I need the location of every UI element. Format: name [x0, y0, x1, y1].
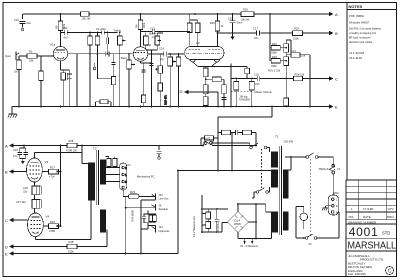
resistor R12b above bus: [100, 100, 108, 104]
svg-text:J10: J10: [159, 193, 164, 197]
wire master vol row: [231, 78, 294, 80]
node dots gnd bus: [18, 106, 20, 108]
svg-text:DRN.: DRN.: [387, 215, 394, 219]
transformer T1 sec2: [283, 212, 288, 230]
svg-text:V3 - 4 filaments: V3 - 4 filaments: [240, 244, 259, 248]
pot RVx: [158, 66, 163, 74]
node E2 test point: [93, 67, 96, 70]
svg-text:Input: Input: [5, 54, 11, 58]
resistor R13: [142, 95, 146, 103]
svg-text:R25: R25: [210, 21, 215, 25]
svg-text:Bass: Bass: [121, 56, 127, 60]
wire V4 anode: [35, 201, 91, 240]
junction dots top: [18, 13, 311, 107]
node dots rail: [60, 13, 62, 15]
svg-text:T1A F2: T1A F2: [202, 137, 211, 141]
svg-text:W005: W005: [234, 222, 241, 226]
selector lower contacts: [256, 191, 259, 194]
wire NFB vertical: [177, 171, 179, 254]
wire rail to R8 to anode: [61, 14, 65, 47]
svg-text:50u+: 50u+: [237, 20, 243, 24]
wire coupling: [148, 53, 184, 55]
resistor R2: [17, 60, 22, 70]
capacitor C20b: [222, 98, 227, 100]
tube V1b: [133, 47, 147, 61]
svg-text:PCB: JMB6A: PCB: JMB6A: [349, 14, 364, 18]
svg-text:15k 1W: 15k 1W: [82, 16, 91, 20]
svg-text:C: C: [5, 218, 8, 223]
svg-text:Line Out: Line Out: [159, 197, 169, 201]
svg-text:+healthy at clipping into: +healthy at clipping into: [349, 31, 377, 35]
pot RV bass: [127, 60, 132, 69]
svg-text:R33: R33: [50, 220, 55, 224]
svg-text:C17: C17: [253, 27, 258, 31]
svg-text:R22: R22: [272, 42, 277, 46]
svg-text:E: E: [336, 204, 338, 208]
svg-text:220k: 220k: [293, 37, 299, 41]
svg-text:Fax: 408-090: Fax: 408-090: [348, 272, 366, 276]
svg-text:470R 2W: 470R 2W: [66, 149, 77, 153]
svg-text:R18: R18: [294, 27, 299, 31]
voltage selector switch: [250, 146, 253, 149]
fuse F1: [332, 164, 335, 167]
wire R3 to gnd: [40, 81, 42, 107]
wire R2 to gnd: [18, 70, 20, 107]
resistor R15: [176, 57, 181, 66]
wire V3 anode top: [34, 153, 82, 159]
svg-text:R40 680R: R40 680R: [131, 210, 135, 222]
resistor R8: [58, 21, 63, 31]
svg-text:V1b: V1b: [147, 43, 152, 47]
pot RV volume: [168, 57, 173, 66]
svg-text:4n7: 4n7: [64, 36, 69, 40]
svg-text:100k: 100k: [68, 249, 74, 253]
resistor R3: [39, 71, 44, 81]
svg-text:22n: 22n: [254, 36, 259, 40]
svg-text:33k: 33k: [29, 59, 34, 63]
connector P1: [120, 163, 127, 190]
svg-text:RV3: RV3: [130, 190, 136, 194]
svg-text:V2: V2: [196, 41, 200, 45]
wire arrow A right: [329, 12, 334, 16]
bridge rectifier D1-4: [228, 212, 249, 233]
svg-text:R4: R4: [293, 49, 297, 53]
resistor R27: [49, 169, 59, 174]
capacitor C5: [106, 38, 108, 45]
resistor R20: [195, 23, 200, 33]
transformer T2 primary: [89, 163, 95, 200]
capacitor C14: [164, 52, 167, 57]
ground mains: [322, 206, 331, 211]
svg-text:CPV: CPV: [388, 207, 394, 211]
svg-text:S1: S1: [309, 242, 313, 246]
wire T1 to switch: [285, 157, 306, 170]
notes box: [347, 3, 397, 181]
capacitor C28: [24, 148, 29, 159]
svg-text:47u: 47u: [13, 154, 18, 158]
svg-text:A: A: [335, 12, 338, 17]
pot RV treble: [118, 36, 123, 45]
transformer T1 prim3: [272, 212, 278, 232]
resistor R18: [293, 31, 303, 36]
svg-text:T500mA: T500mA: [319, 167, 329, 171]
capacitor C27: [34, 200, 41, 209]
wire rail to plates: [190, 14, 198, 47]
svg-text:MS1: MS1: [334, 191, 340, 195]
resistor R21: [212, 77, 221, 82]
capacitor C17: [257, 31, 260, 36]
resistor R25: [215, 21, 219, 31]
pot RV1 master: [234, 81, 239, 90]
svg-text:17-5-80: 17-5-80: [363, 207, 374, 211]
svg-text:4001: 4001: [349, 225, 379, 239]
capacitor C6: [105, 51, 109, 56]
svg-text:T2: T2: [93, 147, 97, 151]
svg-text:Middle: Middle: [149, 32, 157, 36]
small labels top half: [5, 8, 338, 110]
node test point: [21, 28, 24, 31]
svg-text:C18: C18: [254, 72, 259, 76]
resistor R34: [222, 85, 227, 94]
wire HT rail drop to C10: [22, 14, 24, 19]
jack J1 input: [16, 52, 19, 61]
node dots mid: [89, 32, 91, 34]
wire rail-R9-anode: [141, 14, 153, 47]
capacitor C31: [214, 213, 219, 228]
svg-text:distortion just visible.: distortion just visible.: [349, 40, 373, 44]
wire from rail: [270, 14, 271, 61]
wire C to V4 grid: [13, 219, 28, 221]
wire B+ to primary: [82, 146, 89, 164]
title block: [346, 180, 397, 277]
svg-text:STD: STD: [382, 230, 390, 235]
wire neon loop: [296, 207, 305, 239]
wire V2 cathodes join: [193, 62, 217, 68]
tube V4: [28, 213, 44, 237]
svg-text:R2a 15k: R2a 15k: [295, 72, 305, 76]
capacitor C9: [142, 64, 154, 73]
svg-text:T1: T1: [275, 135, 279, 139]
wire bias tap: [218, 107, 272, 171]
wire bridge top: [238, 204, 256, 222]
svg-text:NOTES: NOTES: [349, 4, 363, 9]
resistor R12: [95, 36, 100, 45]
wire HT rail top: [23, 13, 329, 15]
svg-text:V1a: V1a: [50, 43, 56, 47]
resistor R38: [67, 244, 77, 249]
wire j10 sleeve: [141, 200, 155, 254]
pot RV3 hum: [128, 194, 139, 199]
svg-text:MARSHALL: MARSHALL: [348, 240, 397, 251]
svg-text:V4: V4: [46, 215, 50, 219]
wire P1 bottom down: [123, 190, 128, 197]
tube V2 cathode bulges: [190, 59, 220, 62]
wire V3 cathode: [33, 182, 35, 186]
resistor R15b: [158, 83, 163, 91]
tube V2 grid dashes: [186, 52, 223, 54]
svg-text:D1-4: D1-4: [235, 219, 241, 223]
ground: [8, 107, 17, 118]
transformer T2 sec1: [100, 160, 105, 184]
svg-text:DRAWING NUMBER: DRAWING NUMBER: [348, 220, 377, 224]
resistor R10: [88, 36, 93, 45]
wire switch to N: [317, 212, 339, 238]
resistor R22: [271, 46, 280, 51]
wire B to V3 grid: [13, 171, 27, 173]
heater arrows: [245, 239, 253, 242]
svg-text:C14: C14: [159, 47, 164, 51]
transformer T1 sec1: [283, 170, 288, 198]
wire R1 to grid: [37, 56, 54, 71]
resistor R31: [107, 159, 111, 167]
tone stack: [68, 31, 163, 107]
resistor R41 bias: [222, 130, 231, 134]
svg-text:E: E: [335, 104, 338, 109]
svg-text:TANDEM: TANDEM: [239, 98, 250, 102]
wire B line: [218, 32, 330, 34]
pot RV middle: [155, 36, 160, 45]
svg-text:22n: 22n: [255, 82, 260, 86]
PI output network: [211, 14, 310, 107]
wire rv3 gnd vertical: [126, 197, 148, 254]
switch gang dashes: [310, 159, 312, 235]
resistor Ra: [294, 76, 303, 81]
svg-text:C: C: [388, 269, 392, 275]
svg-text:A: A: [5, 143, 8, 148]
svg-text:P1: P1: [128, 163, 132, 167]
wire mid row: [68, 53, 133, 55]
svg-text:C19: C19: [228, 16, 233, 20]
resistor R26: [241, 12, 254, 17]
jack J13 phones: [141, 226, 155, 233]
resistor R1: [27, 54, 37, 59]
wire tops: [90, 33, 112, 107]
svg-text:E: E: [5, 251, 8, 256]
wire c5: [106, 33, 108, 54]
capacitor C19: [230, 14, 236, 37]
fuse F2: [204, 142, 207, 145]
transformer T2 core: [97, 150, 99, 205]
svg-text:R1: R1: [29, 50, 33, 54]
capacitor C5b: [112, 54, 116, 107]
svg-text:ISS: ISS: [349, 215, 354, 219]
capacitor C25: [284, 98, 289, 106]
svg-text:R8: R8: [55, 25, 59, 29]
wire T1 sec to bridge: [256, 204, 272, 239]
svg-text:V1.2: ECC83: V1.2: ECC83: [349, 51, 365, 55]
wire sec to P1: [105, 157, 119, 182]
stage V2 phase inverter: [184, 14, 236, 107]
svg-text:22u: 22u: [27, 21, 32, 25]
wire heater run: [178, 170, 272, 172]
lamp neon: [300, 213, 308, 221]
svg-text:1M: 1M: [14, 70, 18, 74]
capacitor C15: [245, 68, 250, 73]
resistor R3a inline rail: [81, 12, 90, 17]
wires left psu: [202, 195, 228, 232]
tube V1a: [53, 47, 67, 61]
connector MS1: [328, 195, 338, 215]
svg-text:+70v: +70v: [49, 175, 55, 179]
wire bridge bottom: [222, 204, 256, 239]
resistor R14: [203, 97, 208, 106]
wire cathode chain: [61, 61, 70, 107]
svg-text:Vol: Vol: [160, 57, 164, 61]
svg-text:C26: C26: [13, 148, 18, 152]
wire switch to fuse: [318, 157, 333, 164]
svg-text:D: D: [5, 244, 8, 249]
svg-text:C11: C11: [63, 26, 68, 30]
capacitor C4: [99, 31, 118, 35]
resistor R37: [153, 215, 157, 222]
capacitor C13: [152, 29, 190, 34]
svg-text:C10: C10: [14, 18, 19, 22]
svg-text:Master Volume: Master Volume: [255, 90, 273, 94]
svg-text:B: B: [5, 169, 8, 174]
wire D arrow: [188, 92, 218, 107]
svg-text:N: N: [336, 210, 338, 214]
svg-text:R27: R27: [50, 165, 55, 169]
wire drop x77: [76, 54, 78, 107]
resistor R39: [206, 212, 211, 219]
stage V1a: [16, 14, 99, 107]
capacitor C23: [205, 136, 214, 140]
wire E bus bottom: [13, 253, 178, 255]
resistor R33: [49, 224, 59, 229]
capacitor C24: [235, 130, 242, 135]
jack J9 speaker: [148, 204, 155, 211]
svg-text:R23: R23: [272, 55, 277, 59]
svg-text:100k: 100k: [142, 22, 146, 28]
node test point 2: [158, 157, 161, 160]
resistor R19: [187, 23, 192, 33]
wire A feed: [13, 145, 249, 147]
capacitor C33: [142, 214, 146, 223]
svg-text:230-240: 230-240: [284, 140, 294, 144]
resistor R30: [32, 186, 37, 195]
wire R25: [217, 14, 219, 47]
selector link dashes: [261, 149, 263, 190]
stage V1b: [133, 14, 190, 107]
svg-text:8R load. crossover: 8R load. crossover: [349, 36, 371, 40]
gang dashes: [231, 91, 252, 93]
wire screen vertical: [60, 146, 62, 227]
pot RV2 master: [249, 81, 254, 90]
tube V3: [27, 158, 43, 182]
resistor R6: [61, 73, 65, 80]
transformer T2 sec2: [100, 210, 105, 232]
resistor Rx1: [284, 44, 289, 53]
svg-text:B: B: [335, 31, 338, 36]
svg-text:R38: R38: [69, 240, 74, 244]
wire E line (ground bus): [12, 106, 329, 108]
resistor R24: [291, 53, 300, 58]
wire v1b cathode: [141, 61, 152, 106]
svg-text:All diodes IN4007: All diodes IN4007: [349, 21, 370, 25]
switch S2a: [306, 156, 309, 159]
svg-text:C13: C13: [150, 27, 155, 31]
resistor R40: [206, 222, 211, 229]
svg-text:V3.4: EL84: V3.4: EL84: [349, 56, 362, 60]
resistor R17: [203, 68, 208, 77]
svg-text:32u: 32u: [23, 190, 28, 194]
svg-text:C29: C29: [23, 186, 28, 190]
svg-text:C27 32u: C27 32u: [16, 200, 26, 204]
resistor R16: [203, 85, 208, 94]
resistor R36: [149, 215, 153, 222]
copyright mark: [386, 267, 394, 275]
resistor R9: [138, 20, 143, 30]
svg-text:330k: 330k: [271, 51, 277, 55]
capacitor C10: [20, 22, 26, 28]
svg-text:R28: R28: [69, 139, 74, 143]
svg-text:Mechanical PC: Mechanical PC: [137, 175, 155, 179]
wire v2 tail: [205, 77, 207, 107]
resistor R35: [113, 159, 117, 167]
svg-text:Speaker: Speaker: [159, 207, 169, 211]
svg-text:H/phones: H/phones: [159, 229, 171, 233]
switch S1: [305, 237, 308, 240]
resistor R7: [144, 36, 149, 45]
svg-text:C4 220n: C4 220n: [96, 27, 106, 31]
svg-text:C: C: [335, 76, 338, 81]
capacitor C8: [67, 73, 71, 80]
capacitor C29: [34, 186, 41, 195]
svg-text:RV1-2 22k: RV1-2 22k: [268, 69, 281, 73]
svg-text:D: D: [180, 89, 183, 94]
resistor Rx2: [284, 57, 289, 66]
power supply: [202, 141, 288, 245]
wire C line: [303, 78, 330, 80]
bottom labels: [5, 135, 341, 257]
capacitor C20: [257, 76, 260, 81]
wire input to R1: [19, 56, 27, 60]
wire speaker to phones net: [144, 211, 157, 226]
svg-text:R15 47k: R15 47k: [164, 95, 168, 105]
svg-text:V3: V3: [45, 160, 49, 164]
wire D line: [13, 230, 107, 247]
jack J10 line out: [148, 194, 155, 200]
transformer T1 core: [280, 146, 282, 235]
wire caps: [20, 146, 26, 162]
resistor R23: [271, 59, 280, 64]
svg-text:R9: R9: [135, 24, 139, 28]
svg-text:10k: 10k: [301, 54, 306, 58]
transformer T1 prim1: [272, 152, 278, 167]
capacitor C11: [65, 30, 99, 35]
svg-text:10000u: 10000u: [216, 222, 220, 231]
svg-text:470R: 470R: [49, 229, 55, 233]
resistor R42 bias: [243, 130, 252, 134]
svg-text:Set RV1-2 for good balance: Set RV1-2 for good balance: [349, 27, 382, 31]
resistor R28: [67, 143, 77, 148]
capacitor C32: [157, 146, 162, 157]
svg-text:DATE: DATE: [363, 215, 371, 219]
svg-text:R26: R26: [243, 8, 248, 12]
resistor R32: [32, 200, 37, 209]
wire HT from rectifier: [249, 145, 256, 147]
mains section: [285, 153, 339, 239]
svg-text:330k: 330k: [271, 64, 277, 68]
wires joining: [280, 40, 291, 98]
node dots B wire: [269, 32, 271, 34]
svg-text:V1-2 filaments (E): V1-2 filaments (E): [192, 216, 196, 237]
tube V2 envelope: [185, 46, 224, 59]
junction dots bottom: [23, 106, 305, 255]
transformer T1 prim2: [272, 170, 278, 187]
resistor R11: [112, 77, 116, 85]
svg-text:J13: J13: [159, 225, 164, 229]
